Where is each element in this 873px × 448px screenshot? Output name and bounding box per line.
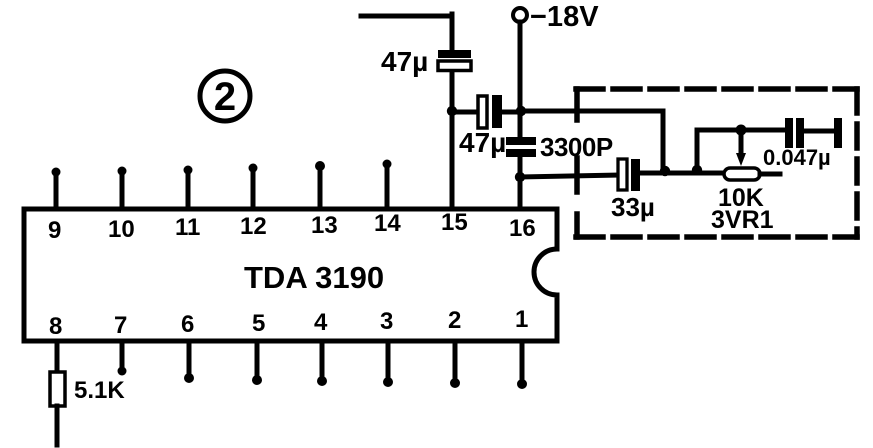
svg-text:2: 2	[214, 75, 236, 119]
pin 10 stub	[120, 172, 125, 209]
svg-text:12: 12	[240, 213, 267, 240]
svg-text:3VR1: 3VR1	[711, 206, 774, 234]
pin 12 stub	[251, 169, 256, 209]
wire node D up to top rail	[697, 130, 786, 170]
svg-text:5: 5	[252, 310, 265, 337]
pin 11 stub	[186, 171, 191, 209]
node B	[660, 166, 670, 176]
figure label 2	[200, 71, 250, 121]
pin 3 stub	[386, 341, 391, 380]
potentiometer VR1 10K	[724, 168, 760, 180]
svg-text:16: 16	[509, 215, 536, 242]
node at 520,177	[515, 172, 525, 182]
pin 14 stub	[385, 165, 390, 209]
wire -18V down to node	[518, 22, 523, 138]
svg-text:−18V: −18V	[530, 1, 599, 33]
wire vertical into C1	[450, 14, 455, 49]
pin 6 stub	[187, 341, 192, 376]
node wiper top	[736, 125, 747, 136]
svg-text:3: 3	[380, 308, 393, 335]
pin 8 wire to resistor	[55, 341, 60, 372]
svg-text:15: 15	[441, 209, 468, 236]
pin 4 stub	[320, 341, 325, 379]
pin 7 stub	[120, 341, 125, 369]
IC U1 TDA3190 body	[24, 209, 557, 341]
capacitor C3 3300P	[506, 137, 536, 145]
svg-text:9: 9	[48, 217, 61, 244]
node at 452,112	[447, 106, 457, 116]
node at 520,112	[516, 106, 526, 116]
svg-text:10: 10	[108, 216, 135, 243]
capacitor C2 47u (horizontal electrolytic)	[452, 110, 520, 115]
pin 1 stub	[520, 341, 525, 382]
resistor R1 5.1K	[50, 372, 65, 406]
pin 13 stub	[318, 167, 323, 209]
wiper arrow	[739, 130, 744, 154]
terminal -18V	[513, 8, 527, 22]
svg-text:4: 4	[314, 309, 328, 336]
capacitor C4 33u	[618, 159, 627, 190]
wire 33u to pot	[640, 171, 726, 176]
svg-text:7: 7	[114, 312, 127, 339]
svg-text:33µ: 33µ	[611, 192, 655, 222]
dashed enclosure box	[576, 86, 857, 92]
svg-text:TDA 3190: TDA 3190	[244, 260, 384, 295]
wire resistor to bottom	[55, 406, 60, 445]
svg-text:47µ: 47µ	[381, 46, 428, 77]
pin 5 stub	[255, 341, 260, 378]
svg-text:1: 1	[515, 306, 528, 333]
svg-text:13: 13	[311, 212, 338, 239]
node D	[692, 165, 702, 175]
svg-text:11: 11	[175, 214, 200, 241]
wire node A to right and down	[520, 111, 663, 171]
pin 9 stub	[54, 173, 59, 209]
wire top-left horizontal	[361, 14, 452, 19]
wire node C to 33u	[520, 175, 618, 177]
wire C1 to pin15 line	[450, 72, 455, 209]
svg-text:6: 6	[181, 311, 194, 338]
pin 2 stub	[453, 341, 458, 381]
svg-text:0.047µ: 0.047µ	[763, 145, 831, 170]
svg-text:2: 2	[448, 307, 461, 334]
wire 3300P to pin16	[518, 157, 523, 209]
svg-text:5.1K: 5.1K	[74, 377, 125, 404]
svg-text:8: 8	[49, 313, 62, 340]
svg-text:47µ: 47µ	[459, 127, 506, 158]
capacitor C5 0.047u	[785, 118, 793, 148]
capacitor C1 47u (vertical electrolytic)	[438, 50, 471, 58]
svg-text:14: 14	[374, 210, 401, 237]
